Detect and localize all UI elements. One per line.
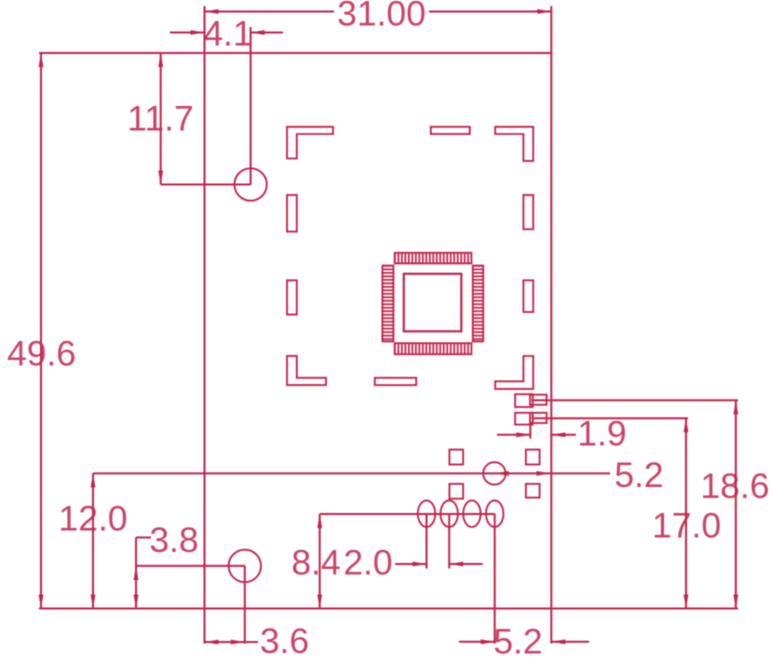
arrowhead 11.7 top bbox=[158, 53, 163, 67]
arrowhead 31.00 left bbox=[205, 9, 219, 14]
svg-text:31.00: 31.00 bbox=[337, 0, 426, 34]
wire hole H2 center horizontal leader bbox=[136, 565, 245, 567]
wire extension line hole H1 vertical x=250.6 bbox=[250, 27, 252, 185]
arrowhead 17.0 bottom bbox=[684, 595, 689, 609]
dimension 4.1 left leader bbox=[170, 32, 205, 34]
silkscreen bar top-mid bbox=[431, 127, 470, 134]
silkscreen corner L bottom-right bbox=[495, 356, 533, 389]
arrowhead 2.0 left bbox=[413, 562, 427, 567]
arrowhead 5.2 bottom left bbox=[481, 639, 495, 644]
svg-text:3.6: 3.6 bbox=[260, 621, 309, 657]
arrowhead 1.9 right bbox=[551, 432, 565, 437]
pad P4 oval bbox=[486, 500, 503, 527]
svg-text:4.1: 4.1 bbox=[203, 14, 252, 54]
wire extension line pad P2 vertical bbox=[448, 514, 450, 569]
wire board top edge bbox=[39, 52, 551, 54]
wire extension line pad P1 vertical bbox=[426, 514, 428, 569]
arrowhead 2.0 right bbox=[449, 562, 463, 567]
wire extension line y=514 through pads P1-P4 bbox=[320, 513, 495, 515]
dimension 31.00 line left segment bbox=[205, 11, 335, 13]
arrowhead 3.6 right bbox=[231, 640, 245, 645]
svg-text:1.9: 1.9 bbox=[577, 414, 626, 454]
silkscreen corner L bottom-left bbox=[287, 356, 326, 385]
arrowhead 31.00 right bbox=[537, 9, 551, 14]
arrowhead 8.4 bottom bbox=[317, 595, 322, 609]
mounting hole H1 bbox=[234, 168, 266, 200]
dimension 3.8 text leader bbox=[136, 537, 151, 539]
arrowhead 49.6 top bbox=[39, 53, 44, 67]
silkscreen bar bottom-mid bbox=[375, 378, 416, 385]
arrowhead 3.8 bottom bbox=[134, 595, 139, 609]
dimension 12.0 line bbox=[92, 473, 94, 608]
wire board left edge bbox=[204, 6, 206, 644]
dimension 1.9 left leader bbox=[497, 434, 530, 436]
pad P3 oval bbox=[463, 500, 480, 527]
dimension 3.8 line bbox=[135, 538, 137, 609]
arrowhead 12.0 bottom bbox=[91, 595, 96, 609]
silkscreen bar right lower bbox=[523, 280, 533, 312]
dimension 31.00 line right segment bbox=[429, 11, 551, 13]
IC U1 pin row right bbox=[473, 266, 483, 342]
svg-text:5.2: 5.2 bbox=[493, 622, 542, 657]
test pad TP1 (small circle) bbox=[483, 462, 505, 484]
pad P2 oval bbox=[441, 500, 458, 527]
wire board bottom edge bbox=[39, 608, 738, 610]
arrowhead 3.8 top bbox=[134, 566, 139, 580]
dimension 17.0 line bbox=[685, 418, 687, 608]
dimension 1.9 right leader bbox=[551, 434, 576, 436]
wire extension line connector J1 row2 y=418.3 bbox=[532, 417, 688, 419]
dimension 2.0 right leader bbox=[449, 563, 483, 565]
wire long extension line y=473.4 through test pad bbox=[93, 472, 610, 474]
pad square bottom-left bbox=[449, 484, 463, 499]
connector J1 pad row2 left bbox=[515, 413, 533, 425]
wire extension line hole H2 vertical x=244.8 bbox=[244, 566, 246, 644]
IC U1 pin row left bbox=[382, 266, 393, 342]
dimension 8.4 line bbox=[319, 514, 321, 609]
wire hole H1 center horizontal leader bbox=[161, 184, 251, 186]
silkscreen bar right upper bbox=[523, 195, 533, 229]
arrowhead 5.2 mid left bbox=[495, 471, 509, 476]
arrowhead 8.4 top bbox=[317, 514, 322, 528]
silkscreen corner L top-left bbox=[287, 127, 333, 159]
svg-text:12.0: 12.0 bbox=[58, 499, 127, 539]
dimension 18.6 line bbox=[735, 400, 737, 608]
svg-text:11.7: 11.7 bbox=[127, 99, 193, 139]
arrowhead 4.1 left bbox=[191, 30, 205, 35]
connector J1 pad row1 left bbox=[515, 394, 533, 407]
arrowhead 5.2 mid right bbox=[537, 471, 551, 476]
svg-text:17.0: 17.0 bbox=[652, 506, 721, 546]
wire board right edge bbox=[550, 6, 552, 644]
arrowhead 18.6 bottom bbox=[733, 595, 738, 609]
IC U1 body outline bbox=[404, 274, 462, 332]
dimension 5.2 bottom left leader bbox=[459, 641, 495, 643]
svg-text:5.2: 5.2 bbox=[614, 455, 663, 495]
arrowhead 4.1 right bbox=[251, 30, 265, 35]
arrowhead 5.2 bottom right bbox=[551, 639, 565, 644]
silkscreen bar left lower bbox=[287, 280, 297, 314]
IC U1 pin row bottom bbox=[395, 343, 472, 354]
wire extension line connector J1 row1 y=400.2 bbox=[532, 399, 738, 401]
IC U1 pin row top bbox=[395, 253, 472, 264]
dimension 5.2 bottom right leader bbox=[551, 641, 589, 643]
arrowhead 12.0 top bbox=[91, 473, 96, 487]
arrowhead 11.7 bottom bbox=[158, 171, 163, 185]
pad square top-right bbox=[526, 450, 540, 465]
connector J1 pad row2 right bbox=[530, 413, 547, 423]
dimension 11.7 line bbox=[160, 53, 162, 185]
arrowhead 17.0 top bbox=[684, 418, 689, 432]
svg-text:2.0: 2.0 bbox=[343, 543, 392, 583]
pad P1 oval bbox=[418, 500, 435, 527]
pad square bottom-right bbox=[526, 484, 540, 498]
dimension 3.6 line bbox=[205, 641, 259, 643]
arrowhead 49.6 bottom bbox=[39, 595, 44, 609]
arrowhead 1.9 left bbox=[516, 432, 530, 437]
pad square top-left bbox=[449, 450, 463, 465]
arrowhead 3.6 left bbox=[205, 640, 219, 645]
wire extension line pad P4 vertical bbox=[494, 514, 496, 644]
mounting hole H2 bbox=[229, 550, 261, 582]
arrowhead 18.6 top bbox=[733, 400, 738, 414]
svg-text:49.6: 49.6 bbox=[7, 334, 76, 374]
connector J1 pad row1 right bbox=[530, 395, 547, 405]
dimension 49.6 line bbox=[40, 53, 42, 609]
svg-text:18.6: 18.6 bbox=[700, 466, 769, 506]
wire extension line connector J1 vertical x=530.3 bbox=[529, 425, 531, 439]
svg-text:8.4: 8.4 bbox=[291, 543, 340, 583]
silkscreen corner L top-right bbox=[495, 127, 533, 161]
silkscreen bar left upper bbox=[287, 195, 297, 232]
svg-text:3.8: 3.8 bbox=[149, 520, 198, 560]
dimension 2.0 left leader bbox=[395, 563, 427, 565]
dimension 4.1 right leader bbox=[251, 32, 283, 34]
